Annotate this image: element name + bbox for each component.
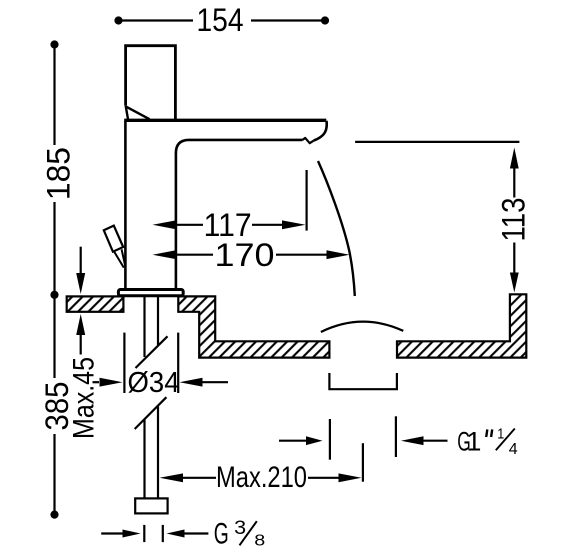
svg-text:1: 1 xyxy=(497,425,504,442)
dimension 154 top: left dot xyxy=(114,16,122,24)
faucet handle notch: left lower edge xyxy=(126,105,128,119)
drain pop-up dome arc xyxy=(321,322,403,332)
side lever stem xyxy=(114,249,125,267)
dimension Max.45: lower arrowhead pointing up xyxy=(76,314,85,335)
dimension 170: left arrowhead xyxy=(153,250,176,259)
dimension G1 1/4: right extension tick xyxy=(395,416,397,457)
dimension G 3/8: left arrowhead xyxy=(123,530,141,538)
dimension Ø34: right leader line xyxy=(203,381,229,383)
faucet column left edge xyxy=(124,121,127,289)
faucet handle notch: diagonal lever line xyxy=(126,107,149,119)
dimension 154 top: right dot xyxy=(321,16,329,24)
dimension Ø34: left arrowhead xyxy=(100,378,123,387)
faucet spout aerator notch xyxy=(303,138,314,143)
dimension G1 1/4: quote mark strokes xyxy=(486,429,492,437)
dimension Ø34: left extension tick xyxy=(123,333,125,393)
dimension 185 left: top dot xyxy=(50,40,58,48)
dimension G 3/8: fraction slash xyxy=(240,521,257,545)
svg-text:4: 4 xyxy=(509,441,518,458)
dimension G 3/8: right extension tick xyxy=(162,525,164,542)
faucet spout tip outline xyxy=(314,121,327,141)
dimension 113: lower arrowhead pointing down xyxy=(510,273,519,293)
dimension Ø34: right arrowhead xyxy=(180,378,203,387)
svg-text:3: 3 xyxy=(234,518,246,539)
faucet spout underside xyxy=(188,139,303,142)
faucet handle (cartridge block) xyxy=(126,46,176,119)
dimension 113: top reference line xyxy=(355,141,519,143)
svg-text:Max.210: Max.210 xyxy=(216,461,307,494)
dimension Max.210: left arrowhead xyxy=(160,473,184,482)
dimension G1 1/4: fraction slash xyxy=(496,429,515,451)
drain tailpiece bracket xyxy=(329,373,397,389)
faucet base flange xyxy=(118,290,183,296)
supply pipe left line upper xyxy=(145,297,159,358)
dimension 185 left: dimension line xyxy=(53,46,55,293)
countertop right slab with basin step (hatched) xyxy=(178,296,329,357)
dimension G 3/8: right leader line xyxy=(185,532,209,534)
supply pipe break slash upper xyxy=(136,336,168,368)
supply pipe lines lower xyxy=(145,407,159,499)
dimension G 3/8: left leader line xyxy=(101,532,123,534)
svg-text:Max.45: Max.45 xyxy=(68,357,101,439)
dimension G1 1/4: left extension tick xyxy=(329,419,331,460)
dimension G1 1/4: left arrowhead xyxy=(306,436,323,445)
side lever handle xyxy=(104,226,123,252)
dimension Ø34: left leader line xyxy=(93,381,100,383)
dimension 117: extension line xyxy=(306,170,308,231)
dimension 170: dimension line xyxy=(176,254,327,256)
water stream curve xyxy=(318,161,355,296)
faucet spout inner corner xyxy=(176,140,188,153)
svg-text:170: 170 xyxy=(215,237,275,273)
svg-text:1: 1 xyxy=(466,426,481,456)
dimension 117: dimension line xyxy=(176,224,282,226)
dimension G1 1/4: right leader line xyxy=(424,440,448,442)
dimension Max.210: right arrowhead xyxy=(339,473,362,482)
faucet body top surface xyxy=(124,119,326,122)
dimension 117: left arrowhead xyxy=(153,220,176,229)
dimension 385 left: dimension line xyxy=(53,296,55,513)
dimension Max.45: lower leader line xyxy=(80,334,82,355)
supply pipe end fitting xyxy=(135,498,167,513)
supply pipe break slash lower xyxy=(135,397,167,429)
faucet column right edge xyxy=(175,153,178,290)
dimension 185 left: bottom dot xyxy=(50,291,58,299)
dimension Max.210: right leader line xyxy=(308,477,339,479)
svg-text:154: 154 xyxy=(197,2,244,38)
dimension G1 1/4: left leader line xyxy=(279,440,307,442)
dimension Max.45: upper leader line xyxy=(80,247,82,273)
dimension 170: right arrowhead xyxy=(327,250,350,259)
dimension 154 top: dimension line xyxy=(120,19,323,21)
dimension 385 left: bottom dot xyxy=(50,510,58,518)
dimension 117: right arrowhead xyxy=(282,220,306,229)
dimension Max.210: left leader line xyxy=(183,477,216,479)
countertop left slab (hatched) xyxy=(67,296,124,311)
dimension Max.45: upper arrowhead pointing down xyxy=(76,273,85,294)
svg-text:Ø34: Ø34 xyxy=(128,367,180,399)
svg-text:113: 113 xyxy=(496,198,532,242)
dimension G 3/8: left extension tick xyxy=(143,525,145,542)
dimension Ø34: right extension tick xyxy=(177,333,179,393)
svg-text:8: 8 xyxy=(254,533,265,550)
dimension Max.210: extension tick xyxy=(362,443,364,482)
dimension G1 1/4: right arrowhead xyxy=(401,436,424,445)
dimension G 3/8: right arrowhead xyxy=(167,530,185,538)
dimension 113: upper arrowhead pointing up xyxy=(510,148,519,169)
svg-text:G: G xyxy=(214,518,229,551)
basin right bottom and rim (hatched) xyxy=(397,294,526,357)
dimension 113: dimension line xyxy=(513,168,515,273)
svg-text:185: 185 xyxy=(41,147,77,200)
